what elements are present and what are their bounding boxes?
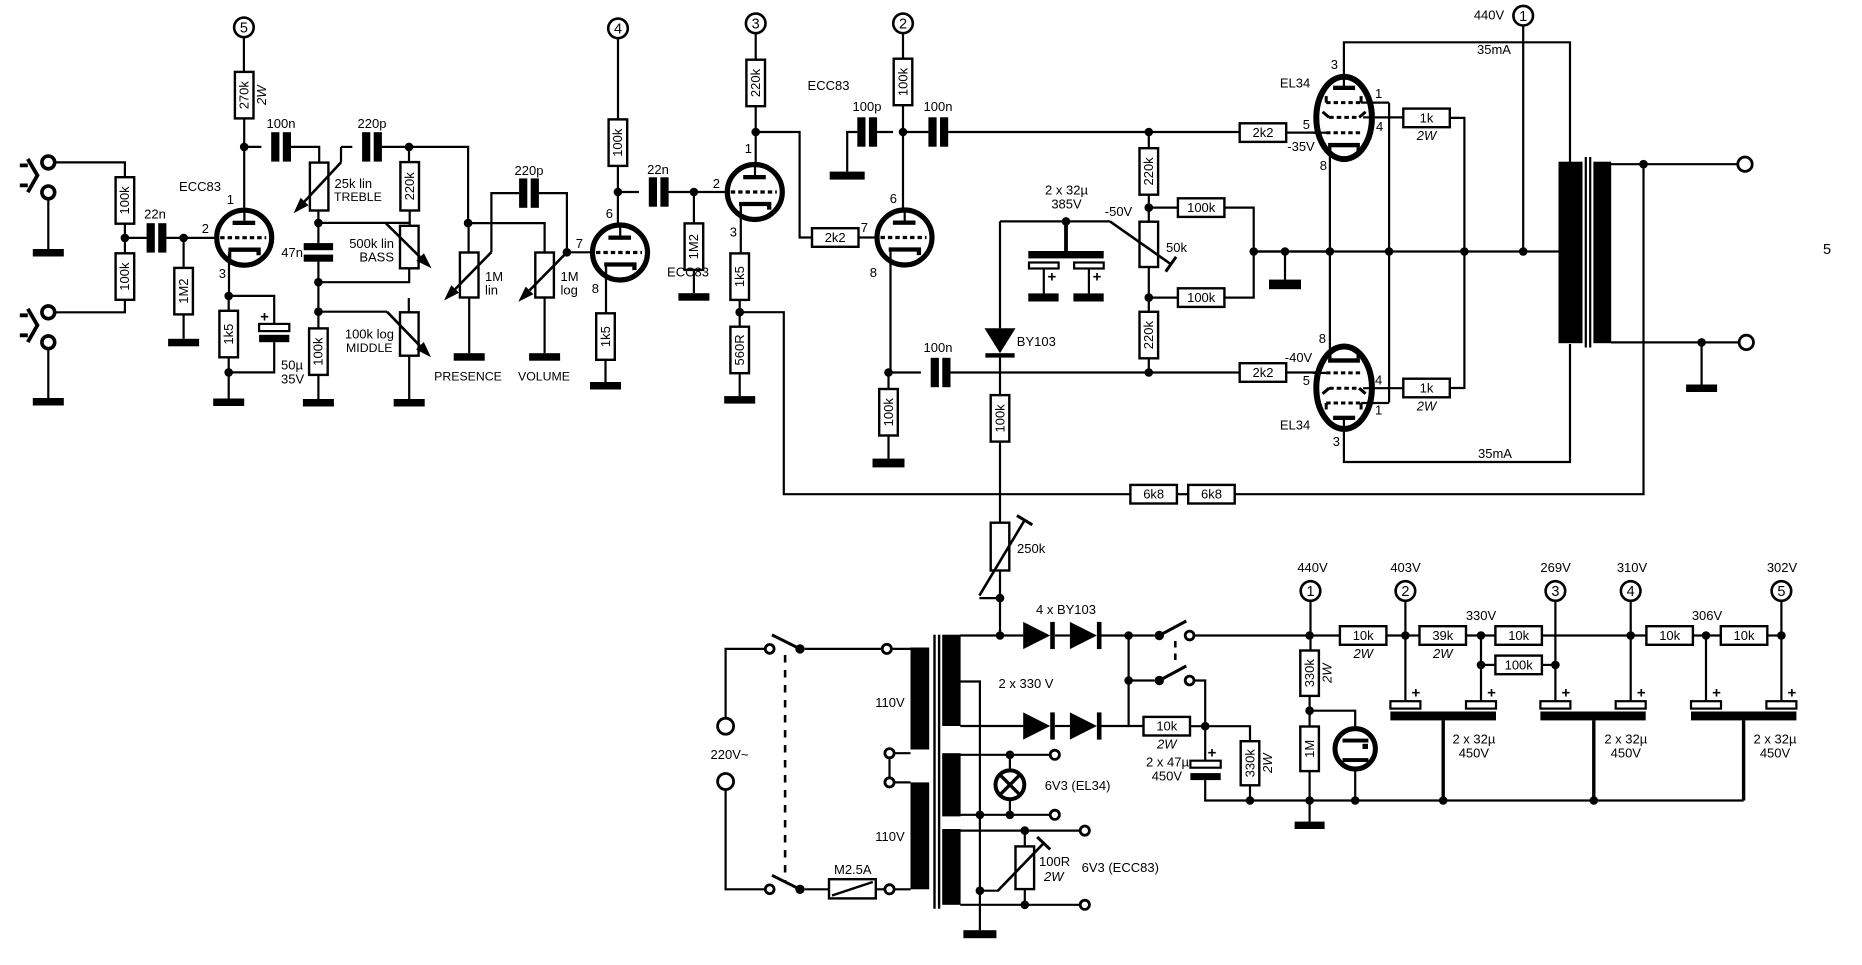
wire diode to 100k xyxy=(999,358,1001,396)
diode BY103 xyxy=(985,328,1016,357)
resistor 220k (bias upper) xyxy=(1140,148,1159,195)
svg-text:440V: 440V xyxy=(1297,560,1328,575)
wire wiper to column xyxy=(979,597,1000,599)
svg-text:220p: 220p xyxy=(358,116,387,131)
node V2a grid xyxy=(690,188,699,197)
wire 306V to cap xyxy=(1705,636,1707,702)
node V2b cathode xyxy=(884,368,893,377)
wire V1a cathode down xyxy=(228,252,230,296)
svg-text:22n: 22n xyxy=(647,162,669,177)
resistor 10k feed2 xyxy=(1495,626,1542,645)
node lamp bottom xyxy=(1006,811,1015,820)
svg-text:2 x 32µ: 2 x 32µ xyxy=(1604,732,1647,747)
svg-text:1k: 1k xyxy=(1420,381,1434,396)
svg-text:450V: 450V xyxy=(1760,746,1791,761)
wire to 100k xyxy=(317,312,319,329)
svg-text:6V3 (EL34): 6V3 (EL34) xyxy=(1045,778,1111,793)
svg-text:2 x 330 V: 2 x 330 V xyxy=(999,676,1054,691)
resistor 270k 2W (V1a anode load) xyxy=(235,72,269,119)
triode V1b ECC83 xyxy=(593,223,648,281)
svg-text:2: 2 xyxy=(713,176,720,191)
capacitor bank 2x32u 450V (3) xyxy=(1691,685,1797,721)
resistor 1M2 (V2a grid leak) xyxy=(685,223,704,270)
wire 100R bottom xyxy=(1024,889,1026,905)
svg-text:10k: 10k xyxy=(1156,719,1177,734)
wire 1k lower to rail xyxy=(1450,252,1465,389)
svg-text:220p: 220p xyxy=(515,163,544,178)
svg-text:270k: 270k xyxy=(237,81,252,110)
node screens rail xyxy=(1460,247,1469,256)
wire 330k to 1M xyxy=(1308,696,1310,727)
node input junction xyxy=(121,234,130,243)
potentiometer 25k lin TREBLE xyxy=(310,163,329,211)
node supply 1 (440V) xyxy=(1513,6,1533,26)
wire to cathode rail xyxy=(1254,250,1330,252)
svg-text:100n: 100n xyxy=(267,116,296,131)
wire 330V to cap xyxy=(1480,636,1482,702)
svg-text:100k: 100k xyxy=(1505,657,1534,672)
trimmer arm 50k xyxy=(1110,221,1176,271)
wire 330k to rail xyxy=(1249,785,1251,800)
wire EL34-1 plate to OT top xyxy=(1344,42,1570,163)
wire node1 to center tap xyxy=(1522,26,1524,252)
wire 220k to 50k xyxy=(1148,195,1150,222)
svg-text:39k: 39k xyxy=(1432,628,1453,643)
wire standby to node1 xyxy=(1194,634,1310,636)
wire 100p to anode node xyxy=(877,131,893,133)
svg-text:1k: 1k xyxy=(1420,110,1434,125)
svg-text:10k: 10k xyxy=(1734,628,1755,643)
node V1a anode xyxy=(240,143,249,152)
svg-text:1: 1 xyxy=(1306,584,1314,600)
svg-text:1M: 1M xyxy=(1302,740,1317,758)
switch mains upper xyxy=(765,635,804,654)
wire D4 to node xyxy=(1102,725,1129,727)
fuse M2.5A xyxy=(829,879,876,898)
node 100R bottom xyxy=(1021,901,1030,910)
ground secondary xyxy=(1686,342,1717,392)
wire to 100k lower xyxy=(1149,297,1178,299)
resistor 2k2 (EL34 upper grid stopper) xyxy=(1240,123,1287,142)
potentiometer 500k lin BASS xyxy=(400,226,419,268)
svg-text:3: 3 xyxy=(219,266,226,281)
svg-text:EL34: EL34 xyxy=(1280,418,1310,433)
svg-text:100n: 100n xyxy=(924,99,953,114)
wire 50k to 220k lower xyxy=(1148,267,1150,312)
ground V2b 100k xyxy=(873,436,905,468)
wire treble bottom to bass column xyxy=(318,222,409,224)
svg-text:ECC83: ECC83 xyxy=(179,179,221,194)
svg-text:2W: 2W xyxy=(1416,128,1438,143)
wire into primary mid1 xyxy=(894,752,910,754)
cathode rail wire xyxy=(1254,250,1560,252)
svg-text:35V: 35V xyxy=(281,372,304,387)
wire 100k to anode node xyxy=(902,105,904,132)
wire 220k lower to node xyxy=(1148,358,1150,372)
wire 1k upper to rail xyxy=(1450,118,1465,252)
dashed gang link standby xyxy=(1174,641,1177,665)
wire 100n to treble top xyxy=(291,147,319,163)
svg-text:2W: 2W xyxy=(1352,646,1374,661)
node supply 1 B+ (440V) xyxy=(1301,581,1321,601)
svg-text:TREBLE: TREBLE xyxy=(334,190,382,204)
PSU ground rail xyxy=(1250,799,1744,801)
wire to 1M2 xyxy=(183,238,185,268)
resistor 100k (grid feed upper) xyxy=(1178,198,1225,217)
svg-text:+: + xyxy=(1562,685,1571,702)
svg-text:10k: 10k xyxy=(1508,628,1529,643)
svg-text:35mA: 35mA xyxy=(1478,446,1512,461)
capacitor 2 x 47u 450V xyxy=(1190,726,1250,800)
svg-text:MIDDLE: MIDDLE xyxy=(346,341,392,355)
svg-text:2W: 2W xyxy=(1319,662,1334,684)
wire d xyxy=(1542,634,1647,636)
node supply 3 xyxy=(746,14,766,34)
svg-text:1M2: 1M2 xyxy=(176,278,191,303)
switch standby upper xyxy=(1155,621,1194,640)
triode V2a ECC83 xyxy=(727,162,782,220)
svg-text:VOLUME: VOLUME xyxy=(518,370,570,384)
svg-text:7: 7 xyxy=(861,220,868,235)
svg-text:3: 3 xyxy=(1333,434,1340,449)
potentiometer 100R 2W (hum balance) xyxy=(1016,846,1035,889)
switch mains lower xyxy=(765,875,804,894)
svg-text:BASS: BASS xyxy=(359,250,394,265)
svg-text:385V: 385V xyxy=(1051,197,1082,212)
resistor 560R (feedback shunt) xyxy=(730,327,749,374)
svg-text:+: + xyxy=(1208,745,1217,762)
node 47n bottom xyxy=(314,278,323,287)
wire switch to primary top xyxy=(805,648,883,650)
svg-text:3: 3 xyxy=(752,17,760,33)
wire heater2 top xyxy=(960,829,1080,831)
wire node5 to cap xyxy=(1780,601,1782,701)
svg-text:5: 5 xyxy=(240,21,248,37)
node presence/volume rail xyxy=(464,219,473,228)
node 47u xyxy=(1201,722,1210,731)
svg-text:220k: 220k xyxy=(1141,157,1156,186)
svg-text:1M2: 1M2 xyxy=(686,234,701,259)
svg-text:220V~: 220V~ xyxy=(711,747,749,762)
ground presence xyxy=(454,353,485,361)
node center tap xyxy=(1519,247,1528,256)
svg-text:100R: 100R xyxy=(1039,854,1070,869)
neon stabilizer tube xyxy=(1335,729,1375,769)
resistor 10k 2W xyxy=(1144,717,1191,752)
wire wiper to 220p xyxy=(341,146,352,148)
switch standby lower xyxy=(1155,666,1194,685)
diode BY103 D4 xyxy=(1070,712,1102,739)
wire bias column upper xyxy=(999,221,1001,328)
resistor 1k5 (V1a cathode) xyxy=(219,311,238,358)
svg-text:-40V: -40V xyxy=(1285,350,1313,365)
capacitor 50u 35V (V1a cathode bypass) xyxy=(229,296,290,373)
svg-text:10k: 10k xyxy=(1353,628,1374,643)
diode BY103 D1 xyxy=(1023,622,1055,649)
svg-text:302V: 302V xyxy=(1767,560,1798,575)
svg-text:+: + xyxy=(1412,685,1421,702)
wire jack2 tip to 100k xyxy=(55,300,125,313)
node 100k left xyxy=(1477,661,1486,670)
resistor 100k (V1b anode load) xyxy=(609,119,628,165)
svg-text:+: + xyxy=(1048,269,1057,286)
svg-text:450V: 450V xyxy=(1611,746,1642,761)
resistor 100k feed3 xyxy=(1495,656,1542,675)
node secondary feedback tap xyxy=(1639,160,1648,169)
svg-text:330V: 330V xyxy=(1466,608,1497,623)
wire 2k2 to EL34-1 g1 xyxy=(1286,132,1316,134)
wire c xyxy=(1466,634,1495,636)
node middle feed xyxy=(314,307,323,316)
svg-text:220k: 220k xyxy=(1141,321,1156,350)
node bias takeoff on HT xyxy=(996,631,1005,640)
svg-text:1: 1 xyxy=(1375,403,1382,418)
svg-text:6: 6 xyxy=(890,191,897,206)
node feedback xyxy=(735,308,744,317)
terminal primary mid1 xyxy=(885,749,894,758)
wire V1b cathode down xyxy=(605,267,607,314)
wire h xyxy=(1767,634,1781,636)
resistor 1M xyxy=(1300,727,1319,772)
svg-text:2k2: 2k2 xyxy=(1253,365,1274,380)
node lower bias junction xyxy=(1145,368,1154,377)
svg-text:110V: 110V xyxy=(875,829,905,844)
potentiometer 100k log MIDDLE xyxy=(400,312,419,355)
ground jack1 xyxy=(33,249,64,257)
node grid feed mid xyxy=(1249,247,1258,256)
resistor 1k lower screen xyxy=(1403,379,1450,414)
wire bank2 stem xyxy=(1592,720,1595,800)
node rail ground tap xyxy=(1281,247,1290,256)
node rect mid xyxy=(1124,676,1133,685)
svg-text:+: + xyxy=(1093,269,1102,286)
svg-text:-50V: -50V xyxy=(1105,204,1133,219)
node supply 5 (preamp B+) xyxy=(234,18,254,38)
wire primary series link xyxy=(888,758,890,778)
svg-text:100k: 100k xyxy=(117,186,132,215)
resistor 220k (V2a anode load) xyxy=(746,60,765,106)
wire to standby lower xyxy=(1129,679,1155,681)
potentiometer 1M log VOLUME xyxy=(535,253,554,298)
node rail center xyxy=(1305,796,1314,805)
node 250k wiper tie xyxy=(996,594,1005,603)
svg-text:1k5: 1k5 xyxy=(732,266,747,287)
wire EL34-2 plate to OT bottom xyxy=(1344,344,1570,462)
svg-text:100k log: 100k log xyxy=(345,327,394,342)
svg-text:6k8: 6k8 xyxy=(1143,487,1164,502)
svg-text:2 x 32µ: 2 x 32µ xyxy=(1754,732,1797,747)
svg-text:log: log xyxy=(561,283,578,298)
resistor 6k8 second xyxy=(1188,485,1235,504)
resistor 10k feed1 xyxy=(1340,626,1387,661)
wire anode node into V1a plate xyxy=(243,147,245,208)
wire OT secondary top to speaker jack xyxy=(1611,163,1738,165)
resistor 10k feed4 xyxy=(1646,626,1693,645)
node V2b anode xyxy=(899,128,908,137)
node supply 2 B+ (403V) xyxy=(1396,581,1416,601)
capacitor 47n (bass) xyxy=(304,243,333,262)
resistor 100k (tone stack) xyxy=(309,328,328,375)
wire b xyxy=(1386,634,1419,636)
wire 22n to V2a grid xyxy=(669,191,727,193)
ground V1b cathode xyxy=(590,360,621,390)
node V2a anode xyxy=(751,128,760,137)
wire fuse to primary bottom xyxy=(876,888,885,890)
node supply 5 B+ (302V) xyxy=(1772,581,1792,601)
capacitor 22n (interstage) xyxy=(649,177,669,206)
wire node to 220k xyxy=(408,147,410,162)
svg-text:100k: 100k xyxy=(992,404,1007,433)
wire bank3 stem xyxy=(1742,720,1745,800)
svg-text:4: 4 xyxy=(1375,373,1382,388)
wire to 1k5 xyxy=(228,296,230,311)
wire anode node into V1b xyxy=(617,192,619,223)
wire bass bottom to 47n node xyxy=(318,268,409,282)
wire V2a anode to 2k2 xyxy=(756,132,812,238)
svg-text:5: 5 xyxy=(1823,242,1831,258)
svg-text:4 x BY103: 4 x BY103 xyxy=(1036,602,1096,617)
wire neon to rail xyxy=(1354,769,1356,801)
svg-text:5: 5 xyxy=(1303,373,1310,388)
wire bank1 stem xyxy=(1441,720,1444,800)
node rail 330k xyxy=(1246,796,1255,805)
wire hum tie to 100R arm xyxy=(980,890,999,892)
wire treble bottom to 47n xyxy=(317,211,319,244)
node V1a cathode xyxy=(224,292,233,301)
wire node3 to cap xyxy=(1554,601,1556,701)
svg-text:BY103: BY103 xyxy=(1017,334,1056,349)
ground middle xyxy=(394,399,425,407)
wire node2 to cap xyxy=(1404,601,1406,701)
node 330V xyxy=(1477,631,1486,640)
svg-text:6: 6 xyxy=(606,206,613,221)
wire node3 to 220k xyxy=(755,33,757,60)
wire 100k to anode node xyxy=(617,166,619,192)
ground PSU center xyxy=(963,930,996,938)
svg-text:220k: 220k xyxy=(402,172,417,201)
svg-text:8: 8 xyxy=(592,281,599,296)
wire 220k to bass top xyxy=(409,211,411,226)
wire 100p to ground xyxy=(847,132,857,172)
wire anode into V2a xyxy=(755,132,757,162)
wire into primary top xyxy=(891,648,910,650)
wire 10k to 330k xyxy=(1190,726,1250,741)
wire into primary bottom xyxy=(894,888,910,890)
svg-text:6V3 (ECC83): 6V3 (ECC83) xyxy=(1082,860,1159,875)
bass wiper arrow xyxy=(386,223,432,268)
wire node4 to 100k xyxy=(617,38,619,119)
wire V2b cathode down xyxy=(889,262,891,373)
svg-text:+: + xyxy=(1788,685,1797,702)
pentode EL34 lower xyxy=(1313,342,1403,434)
potentiometer 250k (bias set) xyxy=(991,523,1010,571)
svg-text:3: 3 xyxy=(1551,584,1559,600)
wire anode to 22n xyxy=(618,191,639,193)
node 310V xyxy=(1626,631,1635,640)
potentiometer 1M lin PRESENCE xyxy=(460,253,479,298)
resistor 1k upper screen xyxy=(1403,109,1450,144)
resistor 100k (V2b anode load) xyxy=(894,59,913,105)
svg-text:2 x 32µ: 2 x 32µ xyxy=(1452,732,1495,747)
wire lamp top xyxy=(1009,755,1011,771)
node 440V rail xyxy=(1305,631,1314,640)
svg-text:100k: 100k xyxy=(1187,200,1216,215)
resistor 39k xyxy=(1420,626,1467,661)
svg-text:100k: 100k xyxy=(610,128,625,157)
svg-text:2W: 2W xyxy=(1156,737,1178,752)
wire jack1 sleeve to ground xyxy=(47,198,49,250)
svg-text:1: 1 xyxy=(1375,86,1382,101)
transformer T1 (mains) xyxy=(911,635,961,909)
resistor 220k (tone) xyxy=(400,162,419,210)
ground volume xyxy=(529,353,560,361)
svg-text:3: 3 xyxy=(730,225,737,240)
svg-text:lin: lin xyxy=(485,283,498,298)
svg-text:450V: 450V xyxy=(1459,746,1490,761)
svg-text:220k: 220k xyxy=(748,68,763,97)
svg-text:7: 7 xyxy=(576,236,583,251)
wire 2k2 to EL34-2 g1 xyxy=(1286,371,1316,373)
svg-text:3: 3 xyxy=(1331,57,1338,72)
volume wiper arrow xyxy=(518,252,567,301)
node upper bias junction xyxy=(1145,128,1154,137)
jack J2 lower input xyxy=(20,306,55,349)
wire lamp bottom xyxy=(1009,799,1011,815)
lamp pilot xyxy=(996,770,1025,799)
wire 220k to anode node xyxy=(755,106,757,132)
terminal heater2 a xyxy=(1080,826,1089,835)
wire to neon xyxy=(1310,711,1356,727)
node -50V upper xyxy=(1145,203,1154,212)
electrolytic 50u plates xyxy=(259,309,289,343)
svg-text:47n: 47n xyxy=(281,245,303,260)
wire EL34-1 g3 to rail xyxy=(1388,103,1390,252)
wire volume to ground xyxy=(543,298,545,354)
svg-text:2: 2 xyxy=(899,17,907,33)
wire 1k5 to node xyxy=(228,357,230,372)
svg-text:2W: 2W xyxy=(1432,646,1454,661)
wire HT center tap xyxy=(960,682,980,931)
trimmer arm 100R xyxy=(998,837,1050,891)
node bias cap xyxy=(1062,217,1071,226)
node tone output xyxy=(405,143,414,152)
svg-text:ECC83: ECC83 xyxy=(808,78,850,93)
terminal heater1 a xyxy=(1050,750,1059,759)
node supply 4 B+ (310V) xyxy=(1621,581,1641,601)
terminal speaker + xyxy=(1738,157,1752,171)
terminal heater2 b xyxy=(1080,900,1089,909)
ground V1a cathode xyxy=(213,372,244,406)
svg-text:100k: 100k xyxy=(311,337,326,366)
svg-text:EL34: EL34 xyxy=(1280,76,1310,91)
svg-text:560R: 560R xyxy=(732,334,747,365)
terminal primary bottom xyxy=(885,885,894,894)
svg-text:306V: 306V xyxy=(1692,608,1723,623)
capacitor 100n (lower coupling) xyxy=(931,358,951,387)
resistor 1M2 (V1a grid leak) xyxy=(174,268,193,315)
svg-text:4: 4 xyxy=(1627,584,1635,600)
svg-text:5: 5 xyxy=(1777,584,1785,600)
wire middle feed xyxy=(318,311,387,313)
wire HT top tap to diodes xyxy=(960,634,1023,636)
wire to 100k xyxy=(887,373,889,390)
wire to 100k upper xyxy=(1149,207,1178,209)
node rect top xyxy=(1124,631,1133,640)
treble wiper arrow xyxy=(294,162,341,213)
svg-text:2 x 47µ: 2 x 47µ xyxy=(1146,755,1189,770)
svg-text:1k5: 1k5 xyxy=(598,326,613,347)
wire mains N to fuse switch xyxy=(726,790,766,890)
